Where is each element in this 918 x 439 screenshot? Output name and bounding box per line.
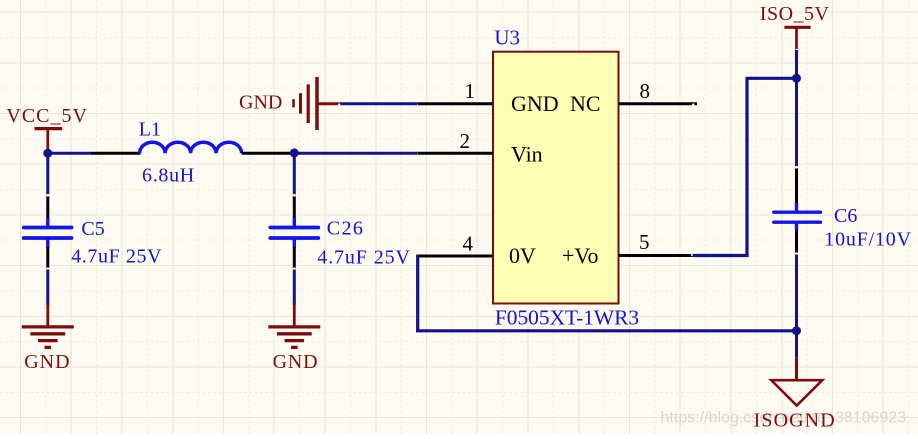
ground ISOGND triangle bbox=[771, 380, 822, 405]
svg-text:GND: GND bbox=[239, 92, 282, 114]
wire pin 4 corner vertical bbox=[416, 255, 419, 331]
svg-text:GND: GND bbox=[273, 351, 319, 373]
ground GND below C5 bbox=[22, 302, 74, 347]
inductor L1 right lead bbox=[242, 152, 295, 155]
svg-text:1: 1 bbox=[465, 79, 476, 103]
svg-text:C26: C26 bbox=[327, 218, 365, 240]
svg-text:F0505XT-1WR3: F0505XT-1WR3 bbox=[495, 305, 639, 329]
pin hotspot at ISO stem bbox=[796, 49, 799, 52]
power bar VCC_5V bbox=[35, 129, 63, 150]
wire C5 to GND bbox=[46, 270, 49, 306]
svg-text:4.7uF 25V: 4.7uF 25V bbox=[71, 246, 162, 268]
capacitor C6 bbox=[774, 203, 821, 230]
wire VCC junction down bbox=[46, 153, 49, 194]
junction ISO_5V node bbox=[792, 74, 801, 83]
pin 2 lead bbox=[418, 152, 493, 155]
wire C6 to ISOGND junction bbox=[795, 255, 798, 331]
wire pin 5 to riser bbox=[693, 254, 749, 257]
junction ISOGND node bbox=[792, 326, 801, 335]
capacitor C26 bottom pin bbox=[293, 247, 296, 270]
wire earth ground to pin 1 bbox=[338, 104, 420, 107]
wire riser to ISO junction bbox=[746, 77, 797, 80]
ground ISOGND stem bbox=[795, 357, 798, 379]
svg-text:10uF/10V: 10uF/10V bbox=[824, 228, 912, 250]
wire ISO junction down to C6 bbox=[795, 78, 798, 166]
inductor L1 bbox=[140, 142, 242, 153]
inductor L1 left lead bbox=[91, 152, 141, 155]
capacitor C5 bbox=[24, 218, 72, 248]
svg-text:NC: NC bbox=[570, 91, 601, 116]
wire riser up bbox=[745, 78, 748, 257]
wire VCC junction to L1 bbox=[46, 152, 91, 155]
svg-text:GND: GND bbox=[511, 91, 559, 116]
wire bottom run to ISOGND junction bbox=[416, 329, 797, 332]
svg-text:+Vo: +Vo bbox=[562, 243, 598, 268]
wire C26 to GND bbox=[293, 270, 296, 306]
pin 4 lead bbox=[418, 255, 493, 258]
svg-text:C6: C6 bbox=[834, 205, 857, 227]
svg-text:2: 2 bbox=[460, 129, 471, 153]
earth ground symbol at pin 1 bbox=[294, 77, 340, 130]
capacitor C26 bbox=[270, 218, 318, 248]
svg-text:GND: GND bbox=[24, 351, 70, 373]
svg-text:VCC_5V: VCC_5V bbox=[6, 105, 88, 127]
capacitor C5 top pin bbox=[46, 194, 49, 218]
capacitor C5 bottom pin bbox=[46, 247, 49, 270]
pin 8 lead bbox=[619, 103, 698, 105]
svg-text:0V: 0V bbox=[509, 243, 536, 268]
pin 5 lead bbox=[619, 254, 694, 256]
wire VCC stem to junction bbox=[46, 149, 49, 155]
svg-text:4.7uF 25V: 4.7uF 25V bbox=[317, 246, 411, 268]
svg-text:ISO_5V: ISO_5V bbox=[760, 3, 830, 25]
junction VCC node bbox=[43, 149, 52, 158]
svg-text:6.8uH: 6.8uH bbox=[142, 164, 195, 186]
svg-text:8: 8 bbox=[640, 79, 651, 103]
wire junction to pin2 lead bbox=[294, 153, 419, 155]
wire junction down to ISOGND bbox=[795, 331, 798, 358]
svg-text:4: 4 bbox=[463, 232, 474, 256]
ground GND below C26 bbox=[268, 302, 320, 347]
capacitor C6 bottom pin bbox=[795, 230, 798, 255]
capacitor C26 top pin bbox=[293, 194, 296, 218]
wire ISO bar to junction bbox=[795, 50, 798, 78]
svg-text:U3: U3 bbox=[494, 26, 520, 50]
svg-text:Vin: Vin bbox=[511, 142, 543, 167]
op-amp U3 body bbox=[493, 52, 619, 304]
svg-text:5: 5 bbox=[639, 230, 650, 254]
svg-text:L1: L1 bbox=[139, 119, 161, 141]
junction node at C26 branch bbox=[290, 148, 299, 157]
svg-text:ISOGND: ISOGND bbox=[754, 410, 836, 432]
svg-text:C5: C5 bbox=[81, 218, 104, 240]
pin 1 lead bbox=[418, 102, 493, 105]
wire C26 junction down bbox=[293, 153, 296, 194]
capacitor C6 top pin bbox=[795, 166, 798, 204]
power bar ISO_5V bbox=[784, 27, 810, 51]
